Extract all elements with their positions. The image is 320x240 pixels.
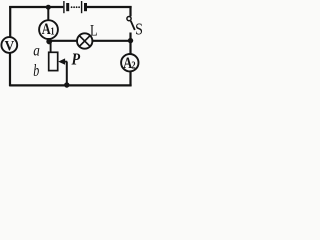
- svg-text:b: b: [33, 61, 39, 80]
- svg-text:V: V: [5, 38, 15, 54]
- svg-text:S: S: [135, 20, 143, 39]
- svg-text:2: 2: [131, 61, 135, 72]
- svg-text:1: 1: [51, 26, 55, 37]
- svg-text:L: L: [90, 22, 98, 39]
- svg-text:P: P: [71, 49, 81, 68]
- svg-text:a: a: [33, 43, 40, 60]
